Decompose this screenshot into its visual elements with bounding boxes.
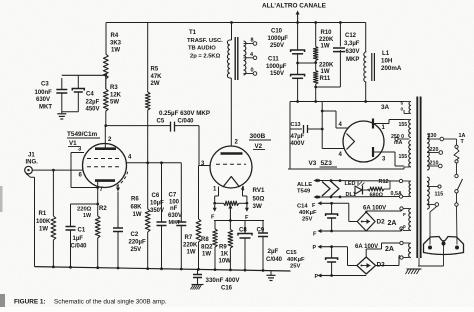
- wire L1 top lead: [365, 23, 367, 53]
- capacitor C1: [70, 204, 72, 227]
- node rail R6: [146, 267, 149, 270]
- T1 core: [234, 37, 236, 80]
- winding mains lower: [427, 177, 429, 209]
- svg-text:C/040: C/040: [266, 257, 283, 263]
- node C12 top: [339, 21, 342, 24]
- node R1 top: [52, 169, 55, 172]
- wire V3 pin4 bottom: [322, 148, 344, 150]
- capacitor C6: [161, 163, 163, 222]
- V3 filament chevron: [347, 134, 355, 150]
- LED DL1: [357, 181, 359, 186]
- svg-text:R1: R1: [39, 211, 47, 217]
- svg-text:10µF: 10µF: [150, 201, 164, 207]
- svg-text:C9: C9: [257, 228, 265, 234]
- resistor R4: [103, 54, 108, 79]
- resistor R12: [368, 187, 384, 191]
- node BC10: [296, 100, 299, 103]
- svg-text:C7: C7: [169, 193, 177, 199]
- capacitor C12: [333, 47, 345, 49]
- resistor R8: [214, 221, 216, 230]
- jack J1: [25, 166, 33, 174]
- svg-text:350V: 350V: [150, 208, 164, 214]
- node R2 top: [96, 203, 99, 206]
- svg-text:Schematic of the dual single 3: Schematic of the dual single 300B amp.: [54, 299, 167, 306]
- wire V1 g3 loop: [71, 152, 84, 154]
- node R10 top: [314, 21, 317, 24]
- V2 filament: [223, 177, 240, 188]
- capacitor C14: [331, 203, 333, 214]
- svg-text:MKT: MKT: [169, 220, 182, 226]
- resistor R10: [313, 47, 318, 61]
- winding D2: [400, 207, 403, 210]
- capacitor C8: [244, 221, 246, 234]
- V1 grid dashes: [87, 158, 122, 160]
- svg-text:100nF: 100nF: [35, 90, 53, 96]
- wire plate3 to HV: [385, 151, 396, 153]
- T1 primary coil: [227, 40, 229, 78]
- ground C3: [57, 113, 66, 115]
- resistor R3: [103, 89, 108, 111]
- svg-text:3K3: 3K3: [110, 41, 122, 47]
- wire tap to fuse: [444, 138, 457, 140]
- svg-text:220K: 220K: [183, 243, 198, 249]
- node rail C7: [180, 268, 183, 271]
- wire heater line top: [316, 180, 319, 182]
- svg-text:ING.: ING.: [26, 160, 39, 166]
- V2 grid dashes: [216, 163, 246, 165]
- svg-text:C8: C8: [239, 228, 247, 234]
- node BL1: [364, 100, 367, 103]
- node R4/R3 junction: [104, 74, 107, 77]
- wire V1 plate lead: [104, 126, 106, 149]
- node RV1 left: [213, 202, 216, 205]
- wire R1 lead: [52, 170, 54, 216]
- svg-text:2W: 2W: [151, 81, 160, 87]
- svg-text:10H: 10H: [381, 58, 393, 65]
- svg-text:100: 100: [169, 200, 180, 206]
- svg-text:mA: mA: [394, 140, 403, 146]
- node rail C6: [160, 267, 163, 270]
- V2 plate bar: [221, 152, 243, 155]
- svg-text:R5: R5: [151, 67, 159, 73]
- svg-text:220K: 220K: [319, 63, 334, 69]
- RV1 filament arrow right: [246, 205, 248, 209]
- svg-text:8Ω2: 8Ω2: [201, 245, 213, 251]
- svg-text:2A: 2A: [388, 220, 397, 227]
- wire V1 screen: [127, 162, 182, 164]
- svg-text:LED: LED: [345, 181, 356, 187]
- wire heater line bottom: [316, 196, 319, 198]
- svg-text:5: 5: [401, 101, 404, 107]
- svg-text:220Ω: 220Ω: [77, 207, 92, 213]
- svg-text:115: 115: [435, 192, 444, 198]
- node tw2: [317, 196, 320, 199]
- wire 115 tap to plug: [430, 206, 437, 212]
- resistor R11: [313, 71, 318, 85]
- node tw1: [317, 179, 320, 182]
- wire ground rail: [35, 267, 291, 271]
- svg-text:3A: 3A: [381, 104, 390, 111]
- svg-text:10W: 10W: [219, 259, 232, 265]
- winding 5V 3A: [400, 101, 404, 103]
- wire V3 pin4 top: [336, 127, 348, 129]
- wire V2 pin1 leg: [218, 187, 220, 197]
- svg-text:155: 155: [399, 122, 408, 128]
- svg-text:RV1: RV1: [253, 187, 265, 194]
- capacitor C13: [290, 128, 302, 130]
- wire filter mid link: [298, 62, 316, 64]
- wire R4 top lead: [105, 23, 107, 55]
- arrow other channel: [297, 13, 299, 23]
- svg-text:C4: C4: [86, 92, 94, 98]
- node C14 top: [330, 202, 333, 205]
- wire LED to R12: [363, 189, 369, 191]
- svg-text:P: P: [313, 245, 317, 251]
- svg-text:TRASF. USC.: TRASF. USC.: [187, 38, 223, 44]
- svg-text:0: 0: [401, 107, 404, 113]
- svg-text:T549/C1m: T549/C1m: [67, 131, 98, 138]
- resistor R1: [51, 216, 56, 240]
- svg-text:47µF: 47µF: [291, 134, 305, 140]
- svg-text:1W: 1W: [133, 212, 142, 218]
- V1 cathode bar: [95, 179, 115, 182]
- node C13 right: [321, 128, 324, 131]
- svg-text:J1: J1: [28, 153, 35, 159]
- capacitor C7: [180, 163, 182, 222]
- V3 plate 1 bar: [372, 119, 374, 129]
- svg-text:V1: V1: [69, 140, 77, 147]
- node rail R9: [229, 269, 232, 272]
- svg-text:R4: R4: [111, 33, 119, 39]
- node R11 bottom: [314, 86, 317, 89]
- bridge D3: [357, 257, 376, 274]
- node rail C2: [117, 267, 120, 270]
- svg-text:1000µF: 1000µF: [266, 64, 287, 70]
- node screen R5: [146, 161, 149, 164]
- wire R5 top lead: [147, 23, 149, 93]
- node rail R7: [197, 268, 200, 271]
- svg-text:1W: 1W: [111, 48, 120, 54]
- node D2 top: [365, 211, 367, 213]
- T1 secondary coil: [244, 41, 246, 75]
- svg-text:1W: 1W: [39, 227, 48, 233]
- svg-text:R12: R12: [379, 179, 389, 185]
- wire C10-C11: [297, 54, 299, 75]
- svg-text:40KµF: 40KµF: [287, 257, 305, 263]
- svg-text:2p = 2.5KΩ: 2p = 2.5KΩ: [190, 54, 221, 60]
- wire cathode bus: [71, 203, 98, 205]
- node pin4 top: [321, 110, 324, 113]
- svg-text:230: 230: [428, 133, 437, 139]
- svg-text:V2: V2: [255, 143, 263, 150]
- transformer core: [416, 97, 418, 259]
- svg-text:1W: 1W: [83, 213, 91, 219]
- svg-text:1W: 1W: [321, 69, 330, 75]
- winding HV lower: [409, 141, 411, 168]
- capacitor C16: [197, 269, 199, 274]
- wire F line top D3: [320, 246, 332, 248]
- tube V3 envelope: [343, 121, 384, 162]
- node C filter mid: [296, 62, 299, 65]
- svg-text:ALLE: ALLE: [297, 182, 312, 188]
- wire R1 bottom: [52, 240, 54, 267]
- svg-text:400V: 400V: [291, 141, 305, 147]
- svg-text:R9: R9: [219, 245, 227, 251]
- svg-text:220: 220: [430, 147, 439, 153]
- node C6 top: [160, 161, 163, 164]
- svg-text:8: 8: [251, 38, 254, 44]
- wire plate to C5: [106, 125, 171, 127]
- wire C12 lead: [339, 23, 341, 47]
- wire T1 primary top: [231, 23, 233, 41]
- RV1 wiper arrow: [229, 207, 231, 221]
- node C15 top: [330, 245, 333, 248]
- svg-text:1W: 1W: [321, 44, 330, 50]
- svg-text:R11: R11: [320, 76, 331, 82]
- svg-text:155: 155: [399, 154, 408, 160]
- winding mains upper: [427, 134, 429, 170]
- node T1 top: [230, 21, 233, 24]
- plug pin left: [428, 246, 432, 250]
- wire earth: [443, 245, 445, 266]
- svg-text:25V: 25V: [290, 264, 300, 270]
- HV center tap: [398, 138, 410, 140]
- svg-text:220K: 220K: [319, 37, 334, 43]
- svg-text:630V: 630V: [168, 213, 182, 219]
- capacitor C5: [170, 122, 172, 132]
- wire R5 bottom to screen node: [147, 110, 149, 163]
- svg-text:F: F: [403, 212, 406, 218]
- svg-text:C13: C13: [291, 122, 301, 128]
- capacitor C9: [262, 221, 264, 234]
- svg-text:1W: 1W: [202, 252, 211, 258]
- svg-text:68K: 68K: [131, 205, 143, 211]
- V1 plate bar: [95, 147, 116, 150]
- winding D3: [400, 241, 403, 244]
- svg-text:1W: 1W: [187, 250, 196, 256]
- svg-text:MKT: MKT: [39, 105, 52, 111]
- wire R10-R11: [315, 61, 317, 71]
- svg-text:MKP: MKP: [346, 57, 359, 63]
- node rail R2: [96, 266, 99, 269]
- wire HV left border: [289, 102, 291, 170]
- svg-text:R3: R3: [110, 85, 118, 91]
- capacitor C10: [291, 50, 305, 52]
- capacitor C11: [291, 75, 305, 77]
- svg-text:C10: C10: [271, 29, 283, 35]
- capacitor C4: [77, 75, 79, 88]
- svg-text:47K: 47K: [151, 74, 163, 80]
- wire J1 to grid: [32, 169, 83, 171]
- V3 plate 3 bar: [372, 147, 374, 157]
- V1 shield dashed arc: [117, 172, 128, 187]
- node rail C9: [262, 269, 265, 272]
- svg-text:0: 0: [251, 68, 254, 74]
- wire R12 right: [384, 188, 390, 190]
- potentiometer RV1: [215, 202, 224, 204]
- wire plate1 to HV: [384, 123, 389, 125]
- wire R11 to C12: [315, 84, 317, 102]
- svg-text:250V: 250V: [270, 43, 284, 49]
- svg-text:R6: R6: [131, 197, 139, 203]
- plug P1: [424, 237, 464, 255]
- node V1 cathode: [96, 186, 99, 189]
- tube V2 envelope: [210, 146, 252, 188]
- capacitor C2: [113, 227, 123, 229]
- svg-text:330nF 400V: 330nF 400V: [206, 277, 241, 284]
- fuse F1: [455, 145, 458, 148]
- svg-text:R10: R10: [321, 30, 333, 36]
- plug pin middle: [442, 242, 446, 246]
- wire C5 to V2 grid: [175, 125, 200, 127]
- svg-text:25V: 25V: [131, 247, 142, 253]
- choke L1 core: [371, 53, 373, 81]
- wire shield to C2: [117, 192, 119, 229]
- wire fuse to switch: [456, 163, 458, 174]
- svg-text:40KµF: 40KµF: [299, 210, 317, 216]
- svg-text:2A: 2A: [385, 246, 394, 253]
- svg-text:D3: D3: [377, 262, 386, 269]
- svg-text:C/040: C/040: [71, 244, 88, 250]
- svg-text:220µF: 220µF: [129, 240, 146, 246]
- svg-text:nF: nF: [170, 206, 178, 212]
- wire T1 primary bottom: [230, 77, 232, 79]
- node arrow: [296, 21, 299, 24]
- wire V2 pin4 leg: [242, 187, 244, 197]
- svg-text:25V: 25V: [302, 217, 312, 223]
- wire F line bottom D2: [320, 230, 332, 232]
- node BR11: [314, 100, 317, 103]
- bridge D2: [357, 212, 375, 231]
- node rail C1: [69, 266, 72, 269]
- resistor R5: [145, 92, 150, 110]
- RV1 filament arrow left: [214, 205, 216, 209]
- svg-text:FIGURE 1:: FIGURE 1:: [14, 299, 46, 306]
- node C14 bottom: [330, 230, 333, 233]
- winding HV upper: [404, 119, 410, 121]
- V1 shield arrow: [117, 185, 119, 190]
- resistor R7: [198, 166, 200, 220]
- svg-text:R2: R2: [99, 206, 107, 212]
- resistor R9: [229, 221, 231, 230]
- svg-text:5Z3: 5Z3: [321, 160, 333, 167]
- svg-text:C15: C15: [286, 250, 297, 256]
- wire L1 bottom lead: [365, 82, 367, 102]
- svg-text:150V: 150V: [270, 71, 284, 77]
- svg-text:3,3µF: 3,3µF: [344, 41, 360, 47]
- wire switch to plug: [456, 206, 459, 244]
- wire D3 top to winding: [365, 249, 367, 257]
- wire D2 top to winding: [365, 211, 367, 212]
- T1 secondary taps: [244, 43, 254, 45]
- wire switch link: [456, 193, 458, 203]
- capacitor C3: [61, 78, 63, 90]
- svg-text:12K: 12K: [110, 93, 122, 99]
- wire rectifier filament column: [321, 102, 323, 149]
- svg-text:450V: 450V: [86, 107, 100, 113]
- wire top B+ rail: [106, 22, 366, 24]
- svg-text:T549: T549: [297, 189, 311, 195]
- resistor R2: [97, 204, 99, 216]
- svg-text:V3: V3: [309, 160, 317, 167]
- wire C3C4 top: [62, 74, 106, 76]
- twist chevron 1: [322, 182, 330, 197]
- node R filter mid: [314, 61, 317, 64]
- svg-text:C11: C11: [268, 57, 279, 63]
- wire cathode bus V2: [214, 220, 264, 222]
- node rail C8: [244, 269, 247, 272]
- svg-text:C6: C6: [152, 193, 160, 199]
- svg-text:22µF: 22µF: [86, 100, 100, 106]
- svg-text:R8: R8: [201, 237, 209, 243]
- wire B+ rail: [290, 101, 404, 103]
- ground C9 rail: [270, 271, 272, 275]
- node V1 plate: [104, 124, 107, 127]
- svg-text:P: P: [315, 274, 319, 280]
- svg-text:R7: R7: [185, 235, 193, 241]
- svg-text:680Ω: 680Ω: [370, 193, 384, 199]
- svg-text:200mA: 200mA: [381, 65, 402, 72]
- node RV1 right: [246, 202, 249, 205]
- wire D3 right to winding: [376, 265, 399, 267]
- svg-text:100K: 100K: [36, 219, 51, 225]
- svg-text:C2: C2: [131, 232, 139, 238]
- winding heater V1: [399, 179, 402, 182]
- svg-text:5W: 5W: [110, 100, 119, 106]
- svg-text:D2: D2: [377, 219, 386, 226]
- wire HV return rail: [288, 168, 404, 170]
- chassis ground: [407, 268, 422, 270]
- node C15 bottom: [330, 274, 333, 277]
- wire R3 to plate node: [105, 111, 107, 126]
- wire V1 cathode lead: [97, 182, 99, 204]
- node rail R8: [214, 268, 217, 271]
- svg-text:T1: T1: [189, 30, 197, 36]
- svg-text:ALL'ALTRO CANALE: ALL'ALTRO CANALE: [262, 3, 327, 10]
- svg-text:210: 210: [430, 161, 439, 167]
- switch S1b: [455, 203, 458, 206]
- svg-text:L1: L1: [382, 50, 390, 57]
- svg-text:630V: 630V: [346, 49, 360, 55]
- svg-text:DL1: DL1: [346, 192, 356, 198]
- svg-text:TB AUDIO: TB AUDIO: [188, 46, 216, 52]
- svg-text:C/040: C/040: [178, 119, 195, 125]
- resistor R6: [147, 163, 149, 209]
- svg-text:1µF: 1µF: [73, 236, 84, 242]
- svg-text:300B: 300B: [250, 133, 266, 140]
- wire F line bottom D3: [320, 275, 332, 277]
- node rail R1: [52, 266, 55, 269]
- node wiper: [229, 219, 232, 222]
- wire R10 lead: [315, 23, 317, 47]
- svg-text:630V: 630V: [36, 97, 50, 103]
- wire F line top D2: [320, 202, 332, 204]
- switch S1: [455, 174, 458, 177]
- choke L1 coil: [364, 52, 366, 82]
- twist chevron 2: [331, 182, 339, 197]
- wire C10 column: [297, 23, 299, 51]
- svg-text:C5: C5: [157, 119, 165, 125]
- svg-text:50Ω: 50Ω: [253, 196, 265, 203]
- svg-text:1K: 1K: [221, 252, 229, 258]
- svg-text:C1: C1: [78, 228, 86, 234]
- svg-text:1000µF: 1000µF: [268, 36, 289, 42]
- svg-text:0: 0: [403, 224, 406, 230]
- tube V1 envelope: [83, 144, 127, 188]
- svg-text:3W: 3W: [253, 203, 262, 210]
- svg-text:2µF: 2µF: [268, 248, 279, 255]
- wire C11 bottom: [297, 78, 299, 101]
